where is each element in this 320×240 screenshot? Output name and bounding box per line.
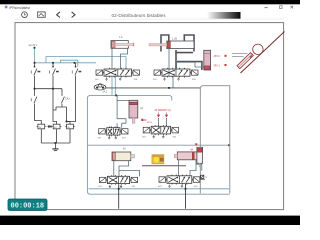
timer display — [8, 199, 47, 211]
junction manifold dot — [115, 95, 117, 97]
compressor 0A1 — [94, 84, 106, 90]
cylinder 2B — [149, 41, 194, 49]
contact S4 — [31, 89, 41, 125]
cylinder 3A — [112, 152, 134, 161]
svg-text:2Vb: 2Vb — [192, 79, 196, 81]
wire 1A left port — [111, 48, 113, 69]
ball on ramp — [253, 44, 263, 54]
window maximize button — [280, 6, 283, 9]
svg-text:3V2: 3V2 — [132, 186, 136, 188]
junction divider dot — [228, 144, 230, 146]
wire 5A pilot left — [117, 95, 129, 127]
wire depart pilots — [159, 118, 167, 126]
svg-text:00:00:18: 00:00:18 — [11, 203, 45, 211]
station box right — [200, 86, 230, 194]
valve 2V — [153, 68, 198, 81]
coil K2 — [52, 124, 62, 129]
wire valve2 drop — [172, 76, 174, 88]
bottom letterbox bar — [0, 216, 300, 225]
wire coil returns — [41, 129, 70, 143]
cylinder 4A — [174, 152, 198, 160]
svg-text:1Vb: 1Vb — [134, 79, 138, 81]
manifold box divider — [87, 144, 229, 146]
window minimize button — [265, 6, 268, 9]
wire supply header — [106, 87, 201, 89]
zoom gradient strip — [207, 12, 241, 19]
top letterbox bar — [0, 0, 300, 4]
arrow depart left — [157, 113, 159, 118]
svg-text:2Va: 2Va — [153, 79, 157, 81]
manifold box top — [87, 95, 229, 194]
toolbar separator line — [15, 18, 284, 21]
svg-text:4V4: 4V4 — [194, 186, 198, 188]
svg-text:1Va: 1Va — [95, 79, 99, 81]
svg-text:0A.1: 0A.1 — [103, 90, 108, 93]
bracket right mount — [184, 35, 194, 52]
page sheet border — [15, 23, 284, 210]
label rod sensor red — [141, 119, 143, 121]
ramp incline — [241, 32, 285, 74]
limit switch symbol — [200, 175, 207, 179]
cylinder 6A vertical — [197, 147, 203, 166]
svg-text:4V1: 4V1 — [142, 137, 146, 139]
label 6A red — [195, 143, 197, 145]
junction air line dots — [118, 188, 187, 190]
junction rung1 dots — [34, 88, 54, 90]
wire upper pilot line — [46, 57, 126, 69]
frame link vertical — [175, 50, 177, 69]
svg-text:5V2: 5V2 — [122, 138, 126, 140]
svg-text:2PV-0: 2PV-0 — [214, 56, 221, 58]
comment arrow marker — [47, 125, 49, 128]
contact S1 — [31, 63, 40, 89]
frame link lower — [177, 62, 202, 70]
valve 4V — [142, 125, 178, 139]
junction branch dot — [66, 121, 68, 123]
wire valve6 exhaust drop — [185, 184, 187, 209]
contact S3 — [67, 63, 82, 122]
svg-text:4A: 4A — [190, 148, 193, 151]
wire 3A left leg — [113, 161, 115, 177]
window title icon — [5, 6, 8, 9]
wire 4A right leg elbow — [190, 160, 196, 176]
wire valve5 exhaust drop — [118, 184, 120, 209]
bracket left mount — [161, 35, 169, 52]
svg-text:2PV-1: 2PV-1 — [214, 65, 221, 67]
wire valve2 pilot elbow — [168, 49, 170, 77]
rail track — [142, 165, 186, 167]
junction return dot — [55, 142, 57, 144]
valve 1V — [95, 68, 140, 81]
wire rung1 horizontal — [35, 88, 63, 90]
wire 1A right port elbow — [121, 48, 128, 69]
toolbar back arrow — [57, 12, 60, 18]
wire 4A station link — [196, 164, 202, 171]
wire 3A right leg elbow — [119, 161, 129, 177]
wire rail3 tap — [61, 60, 78, 67]
frame link horizontal — [175, 52, 193, 54]
load block orange — [152, 155, 164, 164]
toolbar screen icon — [38, 12, 46, 17]
wire valve1 to manifold — [112, 76, 115, 95]
contact S2 — [50, 63, 59, 124]
svg-text:2A: 2A — [140, 107, 143, 110]
junction supply dot — [168, 87, 170, 89]
valve 6V — [158, 175, 200, 188]
wire 24V feed vertical — [34, 49, 36, 63]
wire 2A feed — [195, 62, 204, 67]
wire valve2 right pilot riser — [177, 62, 196, 69]
wire coil branch hat — [53, 105, 70, 125]
wire 4A left leg — [177, 160, 179, 176]
wire top bus horizontal — [35, 62, 97, 64]
coil K3 — [65, 124, 75, 129]
svg-text:1.2B: 1.2B — [172, 38, 177, 41]
pusher plate — [237, 53, 253, 69]
valve 5V — [98, 175, 137, 188]
ground — [52, 143, 58, 151]
contact CA1 — [61, 89, 70, 105]
svg-text:4P DEPART (A): 4P DEPART (A) — [155, 109, 171, 112]
pusher link rods — [232, 54, 248, 57]
window close button — [291, 6, 294, 9]
cylinder 5A vertical — [129, 100, 138, 123]
valve 3V — [98, 126, 128, 139]
arrow depart right — [165, 113, 167, 118]
svg-text:4PV1: 4PV1 — [147, 122, 153, 124]
svg-text:4V2: 4V2 — [173, 137, 177, 139]
junction bus dots — [34, 62, 76, 64]
coil K1 — [36, 124, 46, 129]
toolbar forward arrow — [72, 12, 75, 18]
wire shop air line — [89, 188, 230, 190]
wire 3A sensor branch — [119, 170, 140, 176]
svg-text:3V1: 3V1 — [98, 186, 102, 188]
svg-text:5V1: 5V1 — [98, 138, 102, 140]
svg-text:4V3: 4V3 — [158, 186, 162, 188]
svg-text:3A: 3A — [123, 148, 126, 151]
node 24V terminal — [34, 47, 36, 49]
toolbar clock icon — [22, 12, 28, 18]
cylinder 1A — [111, 41, 134, 49]
cylinder 2A vertical — [204, 50, 211, 70]
svg-text:1 A: 1 A — [119, 36, 123, 39]
